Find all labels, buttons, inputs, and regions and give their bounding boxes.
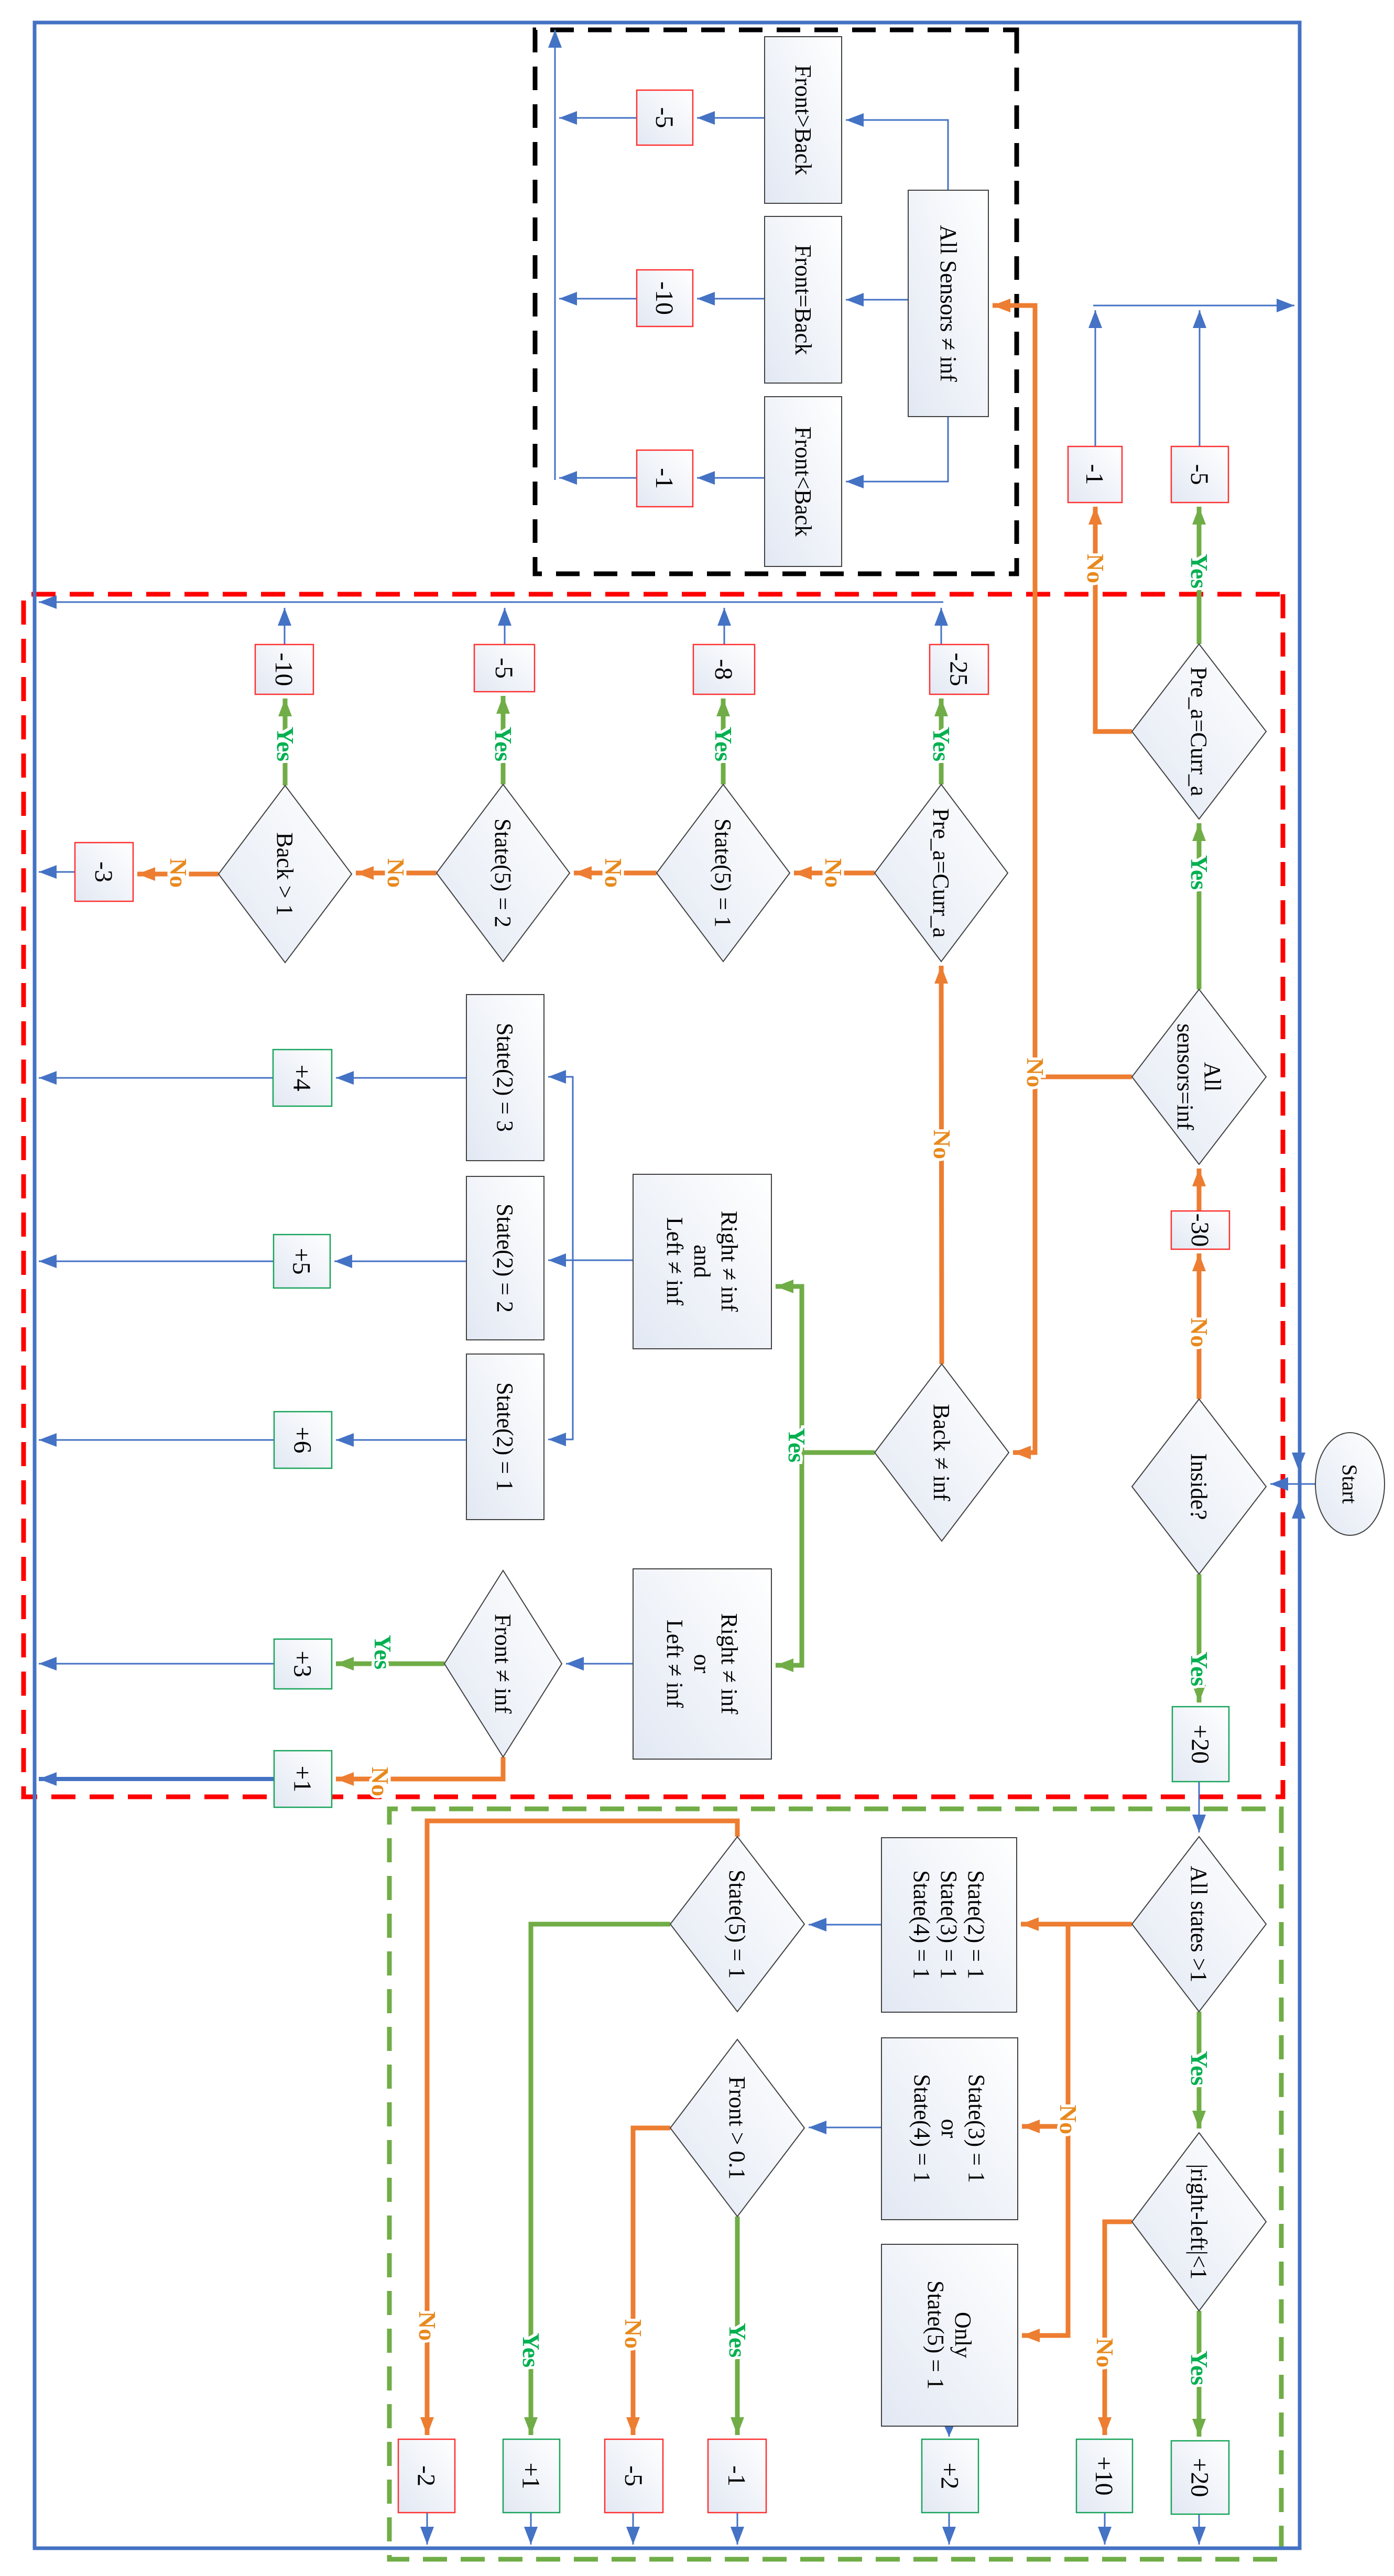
svg-text:+3: +3: [289, 1651, 317, 1677]
svg-text:All states >1: All states >1: [1186, 1866, 1212, 1983]
svg-text:Back > 1: Back > 1: [272, 832, 298, 915]
svg-text:and: and: [689, 1245, 715, 1278]
svg-text:-3: -3: [90, 861, 117, 882]
svg-text:No: No: [1055, 2105, 1082, 2134]
svg-text:No: No: [620, 2319, 647, 2349]
svg-text:No: No: [600, 858, 627, 888]
svg-text:No: No: [1186, 1318, 1213, 1347]
svg-text:Left ≠ inf: Left ≠ inf: [662, 1620, 688, 1708]
svg-text:State(4) = 1: State(4) = 1: [909, 1870, 934, 1979]
svg-text:Front<Back: Front<Back: [790, 427, 816, 537]
svg-text:State(3) = 1: State(3) = 1: [936, 1870, 962, 1979]
svg-text:State(5) = 1: State(5) = 1: [710, 818, 736, 927]
svg-text:State(4) = 1: State(4) = 1: [909, 2074, 935, 2183]
svg-text:Yes: Yes: [272, 727, 299, 761]
svg-text:+1: +1: [289, 1765, 317, 1792]
svg-text:No: No: [820, 858, 847, 888]
svg-text:-1: -1: [1081, 464, 1108, 485]
svg-text:-10: -10: [650, 281, 678, 315]
svg-text:No: No: [1092, 2338, 1118, 2367]
svg-text:Yes: Yes: [1186, 855, 1213, 890]
svg-text:State(5) = 1: State(5) = 1: [724, 1870, 750, 1979]
svg-text:+6: +6: [289, 1426, 317, 1453]
svg-text:+4: +4: [288, 1064, 316, 1091]
svg-text:No: No: [929, 1130, 955, 1159]
svg-text:State(2) = 1: State(2) = 1: [963, 1870, 989, 1979]
svg-text:Yes: Yes: [369, 1635, 396, 1669]
svg-text:Front=Back: Front=Back: [790, 245, 816, 355]
svg-text:|right-left|<1: |right-left|<1: [1186, 2164, 1212, 2280]
svg-text:+1: +1: [517, 2462, 545, 2489]
svg-text:No: No: [414, 2311, 441, 2341]
svg-text:-2: -2: [412, 2465, 440, 2486]
svg-text:Back ≠ inf: Back ≠ inf: [929, 1404, 954, 1501]
svg-text:Right ≠ inf: Right ≠ inf: [716, 1613, 742, 1715]
svg-text:State(2) = 2: State(2) = 2: [492, 1204, 518, 1313]
svg-text:-10: -10: [270, 653, 298, 686]
svg-text:Pre_a=Curr_a: Pre_a=Curr_a: [928, 808, 954, 937]
svg-text:Yes: Yes: [490, 727, 517, 761]
svg-text:Front>Back: Front>Back: [790, 65, 816, 176]
svg-text:Yes: Yes: [724, 2323, 751, 2357]
svg-text:Right ≠ inf: Right ≠ inf: [716, 1211, 742, 1312]
svg-text:+10: +10: [1090, 2456, 1118, 2495]
svg-text:State(5) = 1: State(5) = 1: [923, 2280, 949, 2389]
svg-text:Left ≠ inf: Left ≠ inf: [662, 1217, 688, 1306]
svg-text:-1: -1: [723, 2465, 750, 2486]
svg-text:No: No: [1082, 554, 1109, 583]
svg-text:No: No: [367, 1767, 394, 1796]
svg-text:Start: Start: [1338, 1464, 1362, 1504]
svg-text:No: No: [383, 858, 409, 888]
svg-text:+20: +20: [1186, 2458, 1214, 2497]
svg-text:Yes: Yes: [1186, 2351, 1213, 2385]
svg-text:+5: +5: [288, 1248, 315, 1274]
svg-text:-5: -5: [650, 107, 678, 128]
svg-text:or: or: [689, 1654, 715, 1674]
svg-text:Pre_a=Curr_a: Pre_a=Curr_a: [1186, 667, 1212, 796]
svg-text:Yes: Yes: [928, 727, 955, 761]
svg-text:sensors=inf: sensors=inf: [1172, 1023, 1198, 1130]
svg-text:Yes: Yes: [518, 2333, 544, 2367]
svg-text:Yes: Yes: [1186, 554, 1213, 588]
svg-text:-30: -30: [1186, 1214, 1214, 1247]
svg-text:Front ≠ inf: Front ≠ inf: [490, 1614, 516, 1714]
svg-text:All Sensors ≠ inf: All Sensors ≠ inf: [935, 225, 961, 381]
svg-text:Yes: Yes: [1186, 2051, 1213, 2086]
svg-text:Front > 0.1: Front > 0.1: [724, 2076, 750, 2179]
svg-text:State(5) = 2: State(5) = 2: [490, 818, 516, 927]
svg-text:Yes: Yes: [1186, 1652, 1213, 1686]
svg-text:Yes: Yes: [710, 727, 737, 761]
svg-text:-1: -1: [650, 468, 678, 489]
svg-text:+20: +20: [1186, 1724, 1214, 1764]
svg-text:State(3) = 1: State(3) = 1: [964, 2074, 989, 2183]
svg-text:-8: -8: [710, 659, 737, 680]
svg-text:State(2) = 3: State(2) = 3: [492, 1023, 518, 1132]
svg-text:-25: -25: [945, 653, 973, 686]
svg-text:State(2) = 1: State(2) = 1: [492, 1382, 518, 1491]
svg-text:No: No: [1022, 1058, 1049, 1087]
svg-text:No: No: [165, 858, 192, 888]
svg-text:Inside?: Inside?: [1186, 1453, 1212, 1520]
svg-text:Yes: Yes: [783, 1428, 810, 1462]
svg-text:+2: +2: [936, 2462, 964, 2489]
svg-text:Only: Only: [950, 2312, 976, 2358]
svg-text:-5: -5: [619, 2465, 647, 2486]
svg-text:-5: -5: [1185, 464, 1213, 485]
svg-text:All: All: [1200, 1062, 1225, 1091]
svg-text:-5: -5: [490, 658, 518, 679]
svg-text:or: or: [936, 2119, 962, 2138]
